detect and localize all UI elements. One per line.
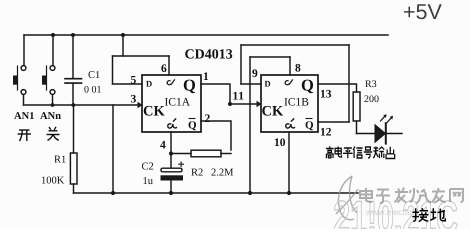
电 bbox=[335, 147, 341, 158]
label D pin IC1A bbox=[146, 81, 152, 87]
wire Q1bar (pin 2) to R2 bbox=[201, 121, 231, 150]
label AN1 bbox=[14, 112, 34, 119]
label 高电平信号输出 output text bbox=[326, 146, 395, 158]
label C1 bbox=[88, 71, 99, 78]
node rail junction dots bbox=[51, 33, 125, 37]
信 bbox=[353, 147, 362, 159]
pin number 9 bbox=[252, 69, 257, 77]
pin number 11 bbox=[233, 92, 243, 100]
label Qbar IC1B bbox=[306, 121, 314, 130]
wire S (pin 8) of IC1B to ground bbox=[250, 57, 290, 193]
label S glyph IC1B bbox=[285, 79, 293, 85]
label 接地 ground text bbox=[412, 208, 445, 222]
label S glyph IC1A bbox=[167, 79, 175, 85]
号 bbox=[364, 147, 372, 158]
label R1 value 100K bbox=[42, 177, 64, 184]
wire ground bus bbox=[74, 192, 359, 194]
label R3 bbox=[365, 80, 376, 87]
出 bbox=[386, 147, 395, 159]
wire +5V top rail bbox=[24, 34, 388, 36]
pushbutton ANn bbox=[42, 35, 55, 105]
watermark swoosh logo bbox=[336, 176, 358, 220]
diode LED output bbox=[357, 114, 403, 143]
label C1 value 0.01 bbox=[84, 86, 101, 93]
label R glyph IC1A bbox=[168, 118, 177, 128]
pin number 3 bbox=[131, 95, 136, 103]
node pin4 junction dot bbox=[169, 151, 173, 155]
label CK IC1B bbox=[262, 106, 283, 116]
pin number 5 bbox=[131, 76, 136, 84]
label Q IC1A bbox=[184, 80, 195, 94]
wire Q1 (pin 1) to CK of IC1B bbox=[201, 84, 257, 104]
node junction dots on switch node bbox=[51, 102, 143, 109]
node junction at pin11 wire bbox=[228, 101, 262, 108]
label CD4013 bbox=[185, 49, 232, 58]
友w bbox=[432, 188, 446, 203]
pin number 8 bbox=[295, 64, 300, 72]
label R glyph IC1B bbox=[286, 118, 295, 128]
pin number 4 bbox=[160, 141, 165, 149]
watermark big outline digits bbox=[334, 201, 457, 234]
wire Q2bar (pin 12) to D (pin 9) loop of IC1B bbox=[241, 45, 349, 122]
烧w bbox=[410, 188, 432, 204]
label C2 value 1u bbox=[143, 177, 152, 184]
label R3 value 200 bbox=[364, 95, 378, 102]
capacitor C1 bbox=[65, 35, 82, 105]
label R1 bbox=[54, 156, 65, 163]
高 bbox=[326, 146, 334, 158]
label IC1B bbox=[284, 98, 308, 106]
wire pin 4 reset node bbox=[170, 132, 172, 168]
op-amp U1 flip-flop IC1A box bbox=[142, 75, 201, 132]
pin number 13 bbox=[321, 90, 331, 98]
label IC1A bbox=[165, 98, 190, 106]
地 bbox=[430, 208, 445, 221]
label Q IC1B bbox=[302, 80, 313, 94]
watermark www url text bbox=[366, 209, 436, 215]
pin number 1 bbox=[204, 72, 208, 80]
label CK IC1A bbox=[144, 106, 165, 116]
label +5V bbox=[404, 4, 442, 19]
wire Q2 (pin 13) to R3 bbox=[318, 84, 357, 92]
wire switch node to CK of IC1A bbox=[24, 104, 139, 106]
网w bbox=[450, 189, 463, 202]
电w bbox=[360, 188, 372, 202]
pushbutton AN1 bbox=[13, 35, 26, 105]
label R2 value 2.2M bbox=[211, 169, 233, 176]
capacitor C2 polarized bbox=[161, 162, 184, 193]
label Qbar IC1A bbox=[189, 121, 197, 130]
label C2 bbox=[142, 163, 153, 170]
watermark chinese text 电子发烧友网 bbox=[360, 188, 463, 204]
resistor R1 bbox=[70, 105, 77, 193]
pin number 12 bbox=[321, 128, 331, 136]
wire R (pin 10) of IC1B to ground bbox=[288, 132, 290, 193]
label R2 bbox=[191, 169, 202, 176]
label 开 switch char bbox=[18, 130, 32, 141]
resistor R2 bbox=[171, 150, 231, 157]
label 关 switch char bbox=[47, 127, 60, 141]
发w bbox=[395, 188, 409, 203]
pin number 10 bbox=[275, 138, 285, 146]
接 bbox=[412, 208, 428, 222]
resistor R3 bbox=[353, 92, 360, 134]
node ground bus junction dots bbox=[111, 191, 291, 195]
wire +5V to D/S loop of IC1A bbox=[113, 35, 170, 84]
输 bbox=[373, 147, 384, 159]
pin number 6 bbox=[161, 64, 166, 72]
label ANn bbox=[40, 112, 61, 119]
子w bbox=[376, 190, 390, 204]
op-amp U2 flip-flop IC1B box bbox=[261, 75, 318, 132]
label D pin IC1B bbox=[265, 81, 271, 87]
pin number 2 bbox=[205, 114, 210, 122]
平 bbox=[343, 148, 353, 158]
wire node X to ground bus bbox=[112, 105, 114, 193]
